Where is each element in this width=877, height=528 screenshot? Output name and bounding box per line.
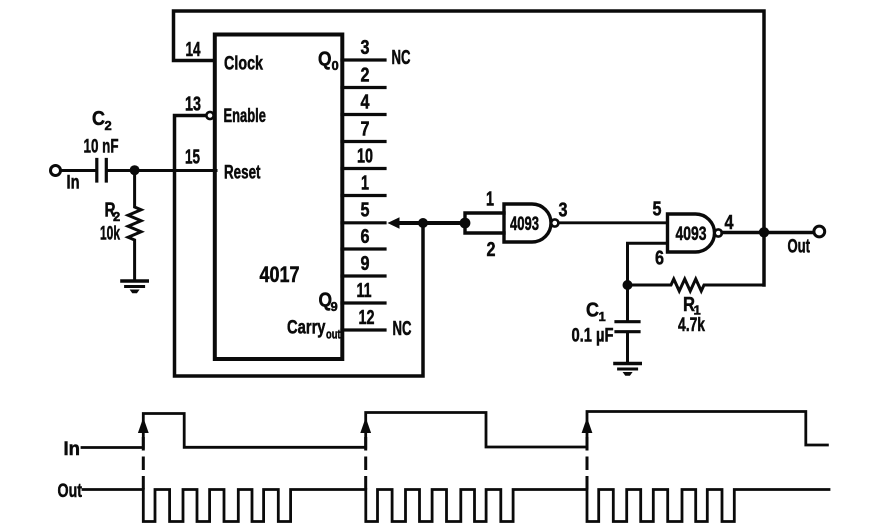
label Carryout <box>287 318 341 342</box>
label R2 <box>105 200 121 225</box>
wire gate1 pin3 to gate2 pin5 <box>559 221 668 224</box>
wire top feedback: clock pin 14 up over to output node, down right side <box>174 11 765 285</box>
svg-text:9: 9 <box>361 253 370 275</box>
dashed timing arrow 1 <box>142 431 145 488</box>
wire input to C2 <box>61 169 95 172</box>
label Q9 <box>319 290 338 315</box>
svg-text:In: In <box>64 439 81 460</box>
svg-text:15: 15 <box>185 147 200 169</box>
svg-text:10: 10 <box>357 146 373 168</box>
wire gate2 pin6 down to RC node <box>628 243 668 285</box>
node junction input/R2 <box>130 165 140 175</box>
svg-text:2: 2 <box>105 118 112 133</box>
svg-text:14: 14 <box>186 39 202 61</box>
svg-text:4093: 4093 <box>510 214 539 235</box>
node output junction dot <box>759 227 769 237</box>
wire enable feedback: pin13 down, along bottom, up to node A <box>175 116 424 377</box>
svg-text:10 nF: 10 nF <box>84 137 119 158</box>
label C2 <box>92 108 112 133</box>
svg-text:0: 0 <box>332 58 339 73</box>
svg-text:6: 6 <box>655 248 664 270</box>
svg-text:2: 2 <box>361 65 370 87</box>
ground for R2 <box>122 279 147 283</box>
terminal Out circle <box>814 226 825 237</box>
svg-text:NC: NC <box>392 47 411 69</box>
arrowhead into pin 5 line <box>388 217 400 228</box>
svg-text:Out: Out <box>788 237 811 258</box>
svg-text:4: 4 <box>725 212 735 234</box>
svg-text:Enable: Enable <box>224 106 267 127</box>
svg-text:7: 7 <box>361 119 370 141</box>
node RC junction dot <box>623 280 633 290</box>
svg-text:2: 2 <box>113 209 120 224</box>
svg-text:4.7k: 4.7k <box>678 315 705 336</box>
svg-text:5: 5 <box>361 200 370 222</box>
svg-text:0.1 µF: 0.1 µF <box>572 326 614 347</box>
node gate2 output bubble <box>715 229 722 236</box>
wire C2 to reset pin 15 <box>108 169 216 172</box>
svg-text:4093: 4093 <box>676 224 707 245</box>
node A junction dot <box>418 218 428 228</box>
svg-text:Reset: Reset <box>224 163 261 184</box>
svg-text:Q: Q <box>318 49 332 71</box>
svg-text:C: C <box>92 108 105 130</box>
svg-text:out: out <box>326 327 341 342</box>
node gate1 output bubble <box>551 219 558 226</box>
label C1 <box>586 300 606 325</box>
node enable bubble pin 13 <box>206 112 213 119</box>
svg-text:In: In <box>67 173 80 194</box>
svg-text:Out: Out <box>58 481 83 502</box>
waveform Out trace <box>83 490 829 522</box>
svg-text:Carry: Carry <box>287 318 326 339</box>
wire node A to gate 1 inputs <box>397 221 465 225</box>
svg-text:C: C <box>586 300 599 322</box>
ground for C1 <box>615 362 640 366</box>
label R1 <box>683 294 701 318</box>
svg-text:12: 12 <box>359 307 375 329</box>
resistor R1 horizontal zigzag <box>628 279 765 291</box>
svg-text:13: 13 <box>185 94 201 116</box>
label Q0 <box>318 49 339 74</box>
svg-text:3: 3 <box>361 37 370 59</box>
svg-text:9: 9 <box>331 299 338 314</box>
svg-text:5: 5 <box>653 199 662 221</box>
svg-text:1: 1 <box>361 173 369 195</box>
svg-text:4: 4 <box>361 92 371 114</box>
svg-text:Clock: Clock <box>224 54 263 75</box>
svg-text:10k: 10k <box>100 224 120 245</box>
IC 4017 counter U1 box <box>215 35 342 360</box>
pin stubs right side of 4017 <box>342 60 385 330</box>
terminal In circle <box>51 166 61 176</box>
svg-text:3: 3 <box>559 200 568 222</box>
dashed timing arrow 3 <box>586 431 589 488</box>
svg-text:2: 2 <box>487 239 496 261</box>
op-amp gate U2B nand 4093 <box>668 214 715 252</box>
node gate1 input junction dot <box>460 218 471 229</box>
wire gate2 pin4 to Out terminal <box>722 231 814 234</box>
dashed timing arrow 2 <box>364 431 367 488</box>
svg-text:6: 6 <box>361 226 370 248</box>
resistor R2 vertical zigzag <box>128 171 141 282</box>
svg-text:NC: NC <box>393 318 412 340</box>
wire gate 1 input bracket pins 1-2 <box>465 213 504 233</box>
svg-text:11: 11 <box>357 280 372 302</box>
op-amp gate U2A nand 4093 <box>504 204 551 242</box>
svg-text:1: 1 <box>486 189 494 211</box>
svg-text:4017: 4017 <box>260 262 300 287</box>
svg-text:1: 1 <box>599 309 606 324</box>
capacitor C1 wire and plates <box>626 285 629 321</box>
waveform In trace <box>82 412 827 448</box>
capacitor C2 plates <box>97 160 107 182</box>
